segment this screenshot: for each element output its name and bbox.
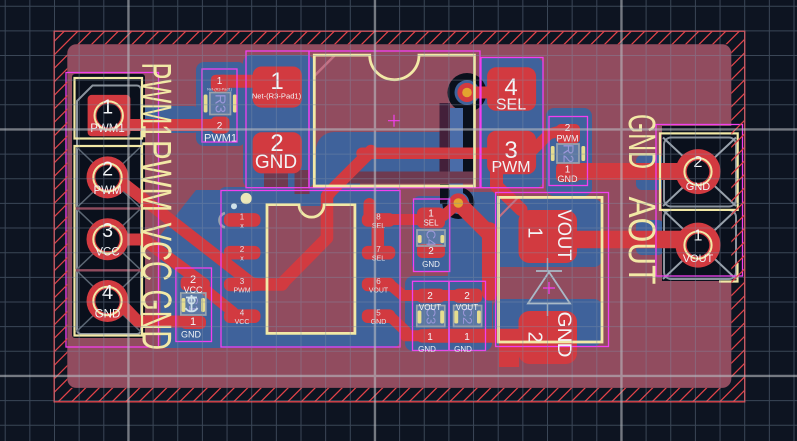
courtyard D1 <box>496 193 609 347</box>
svg-text:2: 2 <box>524 331 546 342</box>
J1 pad1 hole <box>95 101 123 129</box>
pad D1.1 VOUT <box>519 210 578 263</box>
B.Cu trace column via1 lower <box>450 108 464 172</box>
J2 VOUT silk corner <box>719 263 738 282</box>
svg-text:1: 1 <box>694 228 703 245</box>
J1 pad1 square <box>88 95 131 136</box>
wire GND R2.1-J2 <box>570 163 690 180</box>
courtyard U1 <box>309 51 480 188</box>
wire 3PWM-R2.2 <box>532 131 560 151</box>
svg-text:1: 1 <box>524 227 546 238</box>
via1 <box>457 83 476 102</box>
svg-text:GND: GND <box>181 330 202 340</box>
zone B.Cu around U2 left <box>161 190 225 348</box>
J2 VOUT fab box <box>664 210 736 279</box>
svg-text:GND: GND <box>620 114 662 169</box>
svg-text:1: 1 <box>427 332 433 343</box>
svg-text:VCC: VCC <box>183 285 203 295</box>
svg-text:PWM: PWM <box>93 185 121 197</box>
zone B.Cu around pads 1 and 2 GND <box>243 55 314 188</box>
svg-text:VCC: VCC <box>235 319 250 326</box>
svg-text:1: 1 <box>464 332 470 343</box>
J1 pad4 hole <box>93 287 121 315</box>
zone B.Cu around R3 <box>196 62 246 146</box>
svg-text:Net-(R3-Pad1): Net-(R3-Pad1) <box>207 88 232 92</box>
svg-text:x: x <box>240 223 244 230</box>
courtyard C3 <box>413 281 449 350</box>
wire via1-4SEL <box>467 87 495 99</box>
J1 fab outline <box>77 86 141 335</box>
courtyard U2 <box>221 191 400 348</box>
J1 silk box pins2-4 <box>75 146 143 336</box>
svg-text:GND: GND <box>134 290 181 351</box>
via2 clearance disc <box>442 187 474 219</box>
wire via2 diag <box>459 204 490 235</box>
svg-text:VOUT: VOUT <box>683 253 714 265</box>
svg-text:GND: GND <box>418 345 436 354</box>
svg-text:4: 4 <box>240 309 245 318</box>
via1 clearance disc <box>448 73 487 112</box>
wire bar1 to 3PWM <box>362 147 505 159</box>
zone B.Cu below U1 <box>314 158 360 190</box>
U1 anchor cross <box>388 115 400 127</box>
pad C4.1 SEL <box>417 208 445 229</box>
U1 pin1 chamfer <box>314 55 335 76</box>
wire VCC C1.2-U2.4 <box>202 287 233 312</box>
zone B.Cu at J2 GND trace <box>636 155 664 190</box>
svg-text:PWM1: PWM1 <box>204 133 237 145</box>
svg-text:GND: GND <box>95 309 121 321</box>
B.Cu dark column left of via column <box>440 103 451 172</box>
B.Cu trace under zone band B <box>344 172 474 184</box>
svg-text:2: 2 <box>428 246 434 257</box>
wire PWM J1.2-U2.3 <box>110 178 260 285</box>
wire GND bottom C3.1-C2.1-D1.2 <box>430 329 530 343</box>
wire U2.6-C3.2 <box>390 285 420 296</box>
courtyard sel pwm pads <box>481 58 543 188</box>
capacitor C3 body <box>417 306 445 327</box>
wire GND J1.4-C1.1 <box>108 301 186 322</box>
svg-text:PWM1: PWM1 <box>134 63 181 139</box>
pad U2.1 <box>224 213 261 227</box>
capacitor C4 body <box>417 230 445 247</box>
wire VOUT bridge C3.2-C2.2 <box>438 290 458 301</box>
DRC marker dot <box>241 193 252 204</box>
J1 pin2 fab X <box>76 147 141 209</box>
svg-text:R2: R2 <box>560 144 577 163</box>
B.Cu ring at via1 <box>455 80 480 105</box>
B.Cu patch under GND pad <box>264 174 288 188</box>
svg-text:8: 8 <box>376 212 381 221</box>
zone B.Cu around D1 pad2 <box>493 299 602 346</box>
pad R3.1 <box>211 75 230 92</box>
svg-text:PWM: PWM <box>491 159 530 176</box>
svg-text:C4: C4 <box>424 230 439 247</box>
J2 GND pad <box>676 149 721 194</box>
courtyard R3 <box>202 69 237 142</box>
J1 pad3 <box>87 218 129 260</box>
J2 GND fab box <box>664 138 736 207</box>
wire C4.1-U2.8 <box>380 214 425 225</box>
pad R2.1 <box>556 163 580 183</box>
J1 pad2 <box>87 156 129 198</box>
J2 connector cutout <box>662 126 743 281</box>
wire R3.1-pad1 <box>222 75 255 88</box>
J2 VOUT hole <box>684 232 711 259</box>
J1 pad3 hole <box>93 225 121 253</box>
pad C1.2 VCC <box>181 276 206 290</box>
J1 pad4 <box>87 280 129 322</box>
zone B.Cu at J2 VOUT trace <box>636 220 664 255</box>
J1 silk box pin1 <box>75 78 143 139</box>
capacitor C2 body <box>454 306 482 327</box>
svg-text:GND: GND <box>454 345 472 354</box>
svg-text:5: 5 <box>376 309 381 318</box>
svg-text:1: 1 <box>217 76 223 87</box>
courtyard C2 <box>449 281 485 350</box>
courtyard R2 <box>549 117 588 186</box>
svg-text:PWM: PWM <box>233 288 250 295</box>
zone B.Cu around R2 <box>546 108 592 196</box>
courtyard J1 <box>66 73 159 348</box>
J1 connector cutout <box>72 74 145 338</box>
pad R3.2 <box>211 117 230 134</box>
courtyard test pads <box>246 51 309 188</box>
J1 pad2 hole <box>93 163 121 191</box>
D1 anchor cross <box>543 282 555 294</box>
svg-text:GND: GND <box>686 181 711 193</box>
svg-text:x: x <box>240 256 244 263</box>
svg-text:GND: GND <box>422 260 440 269</box>
wire 3PWM down to D1.1 <box>497 171 522 210</box>
courtyard C1 <box>176 268 212 342</box>
zone B.Cu right pads column <box>479 57 543 188</box>
U1 silk outline <box>314 55 474 186</box>
svg-text:AOUT: AOUT <box>620 197 662 285</box>
wire stub above U2.8 <box>364 204 376 216</box>
U2 pin1 fab arc <box>219 213 225 228</box>
pad U2.7 <box>362 246 396 260</box>
D1 pin1 chamfer <box>499 198 518 218</box>
courtyard C4 <box>414 199 450 272</box>
board outline Edge.Cuts <box>54 31 745 402</box>
pad 1 Net-(R3-Pad1) <box>253 67 302 108</box>
pad C2.1 GND <box>453 329 482 343</box>
C1 polarity anchor mark <box>186 295 198 311</box>
svg-text:SEL: SEL <box>423 219 439 228</box>
pad C4.2 GND <box>417 244 445 258</box>
J2 GND fab X <box>663 138 736 207</box>
black column right of U1 <box>463 100 474 172</box>
B.Cu ring at via2 <box>447 192 469 214</box>
zone B.Cu around C4 <box>412 196 452 272</box>
J1 pin4 fab X <box>76 270 141 332</box>
pad U2.4 <box>224 309 261 323</box>
svg-text:GND: GND <box>553 312 574 358</box>
svg-text:GND: GND <box>371 319 387 326</box>
pad U2.2 <box>224 246 261 260</box>
svg-text:VCC: VCC <box>134 223 181 282</box>
svg-text:2: 2 <box>427 291 433 302</box>
svg-text:VOUT: VOUT <box>369 288 389 295</box>
pad U2.6 <box>362 278 396 292</box>
zone B.Cu around via2 <box>448 192 500 290</box>
J1 cell divider 2 <box>76 269 142 271</box>
wire bar1 diagonal to U2 <box>256 151 371 285</box>
pad R2.2 <box>556 124 580 144</box>
zone B.Cu around J1 pad1 trace <box>128 106 199 133</box>
pad 3 PWM <box>487 131 536 175</box>
J2 GND silk box <box>660 133 738 210</box>
svg-text:3: 3 <box>240 277 245 286</box>
pad C3.2 VOUT <box>417 289 445 303</box>
svg-text:6: 6 <box>376 277 381 286</box>
courtyard J2 <box>656 125 743 277</box>
wire VCC J1.3-C1.2 <box>109 240 204 285</box>
D1 diode symbol <box>528 258 570 316</box>
J2 VOUT pad <box>676 223 721 268</box>
zone B.Cu around U2 <box>218 187 400 348</box>
pad C1.1 GND <box>181 316 206 329</box>
svg-text:PWM: PWM <box>557 134 579 144</box>
wire VOUT D1.1-J2 <box>572 231 692 249</box>
wire U2.5-C3.1 <box>390 316 420 336</box>
svg-text:2: 2 <box>694 154 703 171</box>
DRC marker small dot <box>231 203 237 209</box>
svg-text:PWM: PWM <box>134 140 181 212</box>
zone B.Cu around D1 pad1 <box>493 199 602 267</box>
svg-text:1: 1 <box>240 212 245 221</box>
svg-text:2: 2 <box>464 291 470 302</box>
black column above via2 <box>440 184 449 204</box>
wire PWM1 J1.1-R3.2 <box>109 119 213 131</box>
svg-text:VOUT: VOUT <box>456 303 478 312</box>
pad U2.3 <box>224 278 261 292</box>
wire via2-C4.1 <box>443 204 458 217</box>
J1 cell divider 1 <box>76 207 142 209</box>
J2 GND hole <box>684 158 711 185</box>
wire GND into D1 pad2 <box>499 337 519 367</box>
pad D1.2 GND <box>519 311 578 364</box>
pad 4 SEL <box>487 67 536 111</box>
pad U2.8 <box>362 213 396 227</box>
J1 pin3 fab X <box>76 208 141 270</box>
U2 silk outline <box>267 205 355 334</box>
J2 VOUT fab X <box>663 210 736 279</box>
pad C2.2 VOUT <box>453 289 482 303</box>
pad U2.5 <box>362 309 396 323</box>
zone fill inside U2 <box>269 206 354 332</box>
resistor R3 body <box>204 93 237 115</box>
board copper zone fill F.Cu <box>67 44 731 388</box>
pad 2 GND <box>253 132 302 173</box>
via2 <box>449 193 468 212</box>
wire U2.8-U2.7 <box>372 220 385 252</box>
capacitor C1 body <box>181 293 206 315</box>
svg-text:VOUT: VOUT <box>419 303 441 312</box>
resistor R2 body <box>551 144 585 163</box>
wire vert to C2.2 <box>482 230 498 293</box>
zone B.Cu band under U1 <box>316 132 443 172</box>
D1 silk outline <box>499 197 603 342</box>
pad C3.1 GND <box>417 329 445 343</box>
svg-text:R3: R3 <box>212 94 229 113</box>
B.Cu patch under GND pad right <box>295 170 310 194</box>
zone B.Cu around C3 C2 <box>405 276 492 351</box>
